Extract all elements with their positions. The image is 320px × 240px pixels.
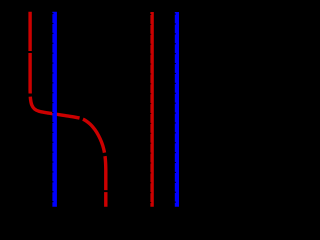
- blue dashed vertical line (left): [52, 12, 54, 207]
- red dashed vertical line (right): [150, 12, 152, 207]
- red sigmoid curve (left, long-dashed, steps from x=30 to x=106): [30, 12, 106, 207]
- blue dashed vertical line (right): [175, 12, 177, 207]
